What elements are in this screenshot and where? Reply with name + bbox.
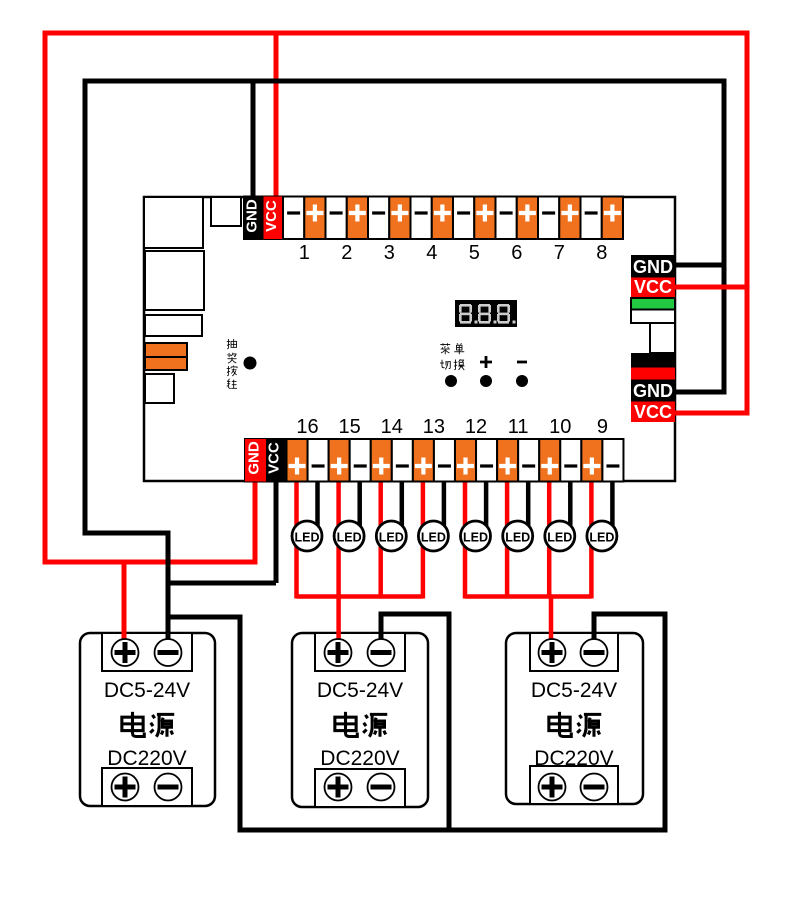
svg-text:16: 16	[296, 416, 318, 438]
svg-text:7: 7	[554, 242, 565, 264]
terminal 9- (bottom)	[602, 439, 623, 482]
label: PS3 电源 power	[549, 712, 601, 737]
svg-text:LED: LED	[463, 531, 488, 545]
terminal 10+ (bottom)	[539, 439, 560, 482]
svg-text:LED: LED	[547, 531, 572, 545]
svg-text:LED: LED	[505, 531, 530, 545]
terminal 6+ (top)	[517, 197, 538, 240]
svg-text:1: 1	[299, 242, 310, 264]
wire: red VCC loop right vertical	[745, 31, 750, 416]
svg-text:GND: GND	[633, 381, 673, 401]
component: green indicator block	[631, 298, 675, 310]
terminal: bottom VCC block (black)	[266, 439, 287, 482]
wire: black drop to PS2 minus screw	[379, 612, 384, 647]
connector: right GND block (top)	[631, 255, 675, 278]
connector: right black band (bottom group)	[631, 353, 675, 368]
screw terminal: PS2 DC5-24V minus	[368, 639, 395, 666]
terminal 7+ (top)	[559, 197, 580, 240]
button: minus SW4	[516, 375, 528, 387]
terminal 3+ (top)	[389, 197, 410, 240]
wire: LED6 black from terminal 11-	[526, 479, 531, 526]
wire: black GND loop right vertical	[722, 79, 727, 395]
label: PS2 电源 power	[335, 712, 387, 737]
wire: black horizontal bottom VCC to PS1 minus column	[168, 581, 276, 586]
svg-text:VCC: VCC	[634, 277, 672, 297]
svg-text:VCC: VCC	[634, 402, 672, 422]
connector: right VCC block (bottom)	[631, 402, 675, 423]
terminal 11- (bottom)	[518, 439, 539, 482]
terminal: top VCC block	[263, 197, 283, 240]
svg-text:5: 5	[469, 242, 480, 264]
svg-text:2: 2	[341, 242, 352, 264]
wire: black DC220V bus left vertical	[238, 615, 243, 833]
svg-text:DC5-24V: DC5-24V	[317, 679, 403, 702]
svg-text:6: 6	[511, 242, 522, 264]
wire: black horizontal to PS2 minus	[381, 612, 452, 617]
wire: black stub to top GND terminal	[251, 81, 256, 205]
display: 7-segment readout U1	[455, 300, 517, 327]
svg-text:DC5-24V: DC5-24V	[104, 679, 190, 702]
button: menu switch SW2	[445, 375, 457, 387]
wire: black horizontal from loop to PS1 minus column	[85, 531, 168, 536]
terminal 7- (top)	[538, 197, 559, 240]
wire: LED1 red from terminal 16+	[294, 479, 299, 599]
wire: LED2 black from terminal 15-	[357, 479, 362, 526]
wire: LED1 black from terminal 16-	[315, 479, 320, 526]
svg-text:13: 13	[423, 416, 445, 438]
svg-text:15: 15	[339, 416, 361, 438]
svg-text:LED: LED	[421, 531, 446, 545]
terminal 1- (top)	[283, 197, 304, 240]
terminal 16+ (bottom)	[287, 439, 308, 482]
terminal 16- (bottom)	[308, 439, 329, 482]
terminal 2+ (top)	[347, 197, 368, 240]
component: rect E left side	[145, 374, 174, 403]
wire: black GND loop left vertical	[83, 79, 88, 536]
wire: red from loop to bottom GND terminal, horizontal run	[45, 560, 255, 565]
screw terminal: PS1 DC5-24V minus	[155, 639, 182, 666]
svg-text:14: 14	[381, 416, 403, 438]
terminal strip J1 top (GND VCC and pairs 1-8)	[244, 197, 623, 240]
wire: black DC220V bus bottom horizontal	[238, 828, 668, 833]
wire: red drop to PS1 plus	[122, 562, 127, 646]
svg-text:10: 10	[549, 416, 571, 438]
wire: black drop to PS3 minus screw	[592, 612, 597, 647]
button: plus SW3	[480, 375, 492, 387]
terminal 1+ (top)	[304, 197, 325, 240]
LED D2	[334, 521, 364, 551]
svg-text:LED: LED	[589, 531, 614, 545]
wire: black branch to DC220V bus	[168, 615, 240, 620]
LED D4	[418, 521, 448, 551]
screw terminal: PS3 DC5-24V minus	[581, 639, 608, 666]
terminal 14+ (bottom)	[371, 439, 392, 482]
svg-text:LED: LED	[379, 531, 404, 545]
wire: LED8 black from terminal 9-	[610, 479, 615, 526]
label: plus button label	[480, 356, 492, 368]
svg-text:DC220V: DC220V	[320, 747, 399, 770]
component: small box right edge	[650, 323, 675, 353]
power supply PS1 (left) body	[80, 633, 215, 806]
screw terminal: PS1 DC220V minus	[155, 774, 182, 801]
terminal 13- (bottom)	[434, 439, 455, 482]
terminal 4+ (top)	[432, 197, 453, 240]
power supply PS2 (middle) body	[292, 633, 428, 807]
wire: LED4 black from terminal 13-	[442, 479, 447, 526]
label: minus button label	[517, 361, 527, 364]
screw terminal: PS1 DC5-24V plus	[112, 639, 139, 666]
svg-text:VCC: VCC	[263, 200, 280, 232]
terminal 2- (top)	[326, 197, 347, 240]
power supply PS3 (right) body	[506, 633, 643, 804]
terminal 5- (top)	[453, 197, 474, 240]
connector: right red band (bottom group)	[631, 368, 675, 380]
LED D3	[376, 521, 406, 551]
terminal 15- (bottom)	[350, 439, 371, 482]
wire: black bus riser mid (to PS2 minus)	[447, 614, 452, 830]
LED D7	[545, 521, 575, 551]
terminal 15+ (bottom)	[329, 439, 350, 482]
LED D1	[292, 521, 322, 551]
terminal 3- (top)	[368, 197, 389, 240]
wire: right side VCC top to red loop	[675, 285, 750, 290]
wire: LED2 red from terminal 15+ and drop to PS2 plus	[336, 479, 341, 646]
wire: LED8 red from terminal 9+	[589, 479, 594, 599]
svg-text:DC220V: DC220V	[534, 747, 613, 770]
svg-text:DC5-24V: DC5-24V	[531, 679, 617, 702]
wire: LED6 red from terminal 11+	[505, 479, 510, 599]
svg-text:LED: LED	[337, 531, 362, 545]
terminal 12+ (bottom)	[455, 439, 476, 482]
label: PS1 电源 power	[122, 712, 174, 737]
component: rect B top-left corner	[144, 197, 203, 248]
screw terminal: PS1 DC220V plus	[112, 774, 139, 801]
wire: red VCC loop top horizontal	[45, 31, 747, 36]
terminal: top GND block	[244, 197, 264, 240]
wire: LED3 black from terminal 14-	[400, 479, 405, 526]
screw terminal: PS2 DC5-24V plus	[325, 639, 352, 666]
svg-text:LED: LED	[295, 531, 320, 545]
wire: LED7 black from terminal 10-	[568, 479, 573, 526]
component: small box top-left of GND	[211, 197, 241, 226]
wire: red bus joining LED5-LED8 plus wires	[465, 594, 591, 599]
LED D5	[461, 521, 491, 551]
svg-text:GND: GND	[633, 257, 673, 277]
connector: right GND block (bottom)	[631, 380, 675, 402]
wire: red VCC loop left vertical	[43, 31, 48, 565]
component: rect C left side	[145, 251, 204, 310]
svg-text:8: 8	[596, 242, 607, 264]
wire: LED4 red from terminal 13+	[421, 479, 426, 599]
screw terminal: PS3 DC5-24V plus	[539, 639, 566, 666]
terminal 8+ (top)	[602, 197, 623, 240]
terminal 6- (top)	[496, 197, 517, 240]
svg-text:11: 11	[508, 416, 529, 438]
terminal 9+ (bottom)	[581, 439, 602, 482]
terminal 4- (top)	[411, 197, 432, 240]
terminal 11+ (bottom)	[497, 439, 518, 482]
svg-text:GND: GND	[244, 199, 261, 233]
terminal 12- (bottom)	[476, 439, 497, 482]
component: rect D left side	[145, 315, 202, 336]
terminal 10- (bottom)	[560, 439, 581, 482]
wire: black horizontal to PS3 minus	[594, 612, 668, 617]
wire: right side GND top to black loop	[675, 263, 727, 268]
wire: LED5 red from terminal 12+	[463, 479, 468, 599]
label: 抽奖按钮 lottery button label	[227, 339, 237, 388]
wire: black GND loop top horizontal	[85, 79, 724, 84]
svg-text:4: 4	[426, 242, 437, 264]
wire: black bus riser right (to PS3 minus)	[663, 614, 668, 833]
wire: LED7 red from terminal 10+ and drop to PS3 plus	[547, 479, 552, 599]
screw terminal: PS3 DC220V plus	[539, 774, 566, 801]
LED D8	[587, 521, 617, 551]
svg-text:12: 12	[465, 416, 487, 438]
svg-text:9: 9	[597, 416, 608, 438]
label: 菜单切换 menu switch label	[440, 343, 465, 370]
svg-text:DC220V: DC220V	[107, 747, 186, 770]
wire: red drop from bus to PS3 plus screw	[549, 597, 554, 647]
wire: black riser to bottom VCC block	[274, 479, 279, 583]
svg-text:GND: GND	[246, 441, 263, 475]
terminal 13+ (bottom)	[413, 439, 434, 482]
board PCB outline	[144, 197, 675, 481]
wire: right side GND bottom to black loop	[675, 390, 724, 395]
wire: red bus joining LED1-LED4 plus wires	[297, 594, 423, 599]
wire: red riser to bottom GND block	[253, 479, 258, 565]
component: white block below green	[631, 310, 675, 324]
terminal: bottom GND block (red)	[245, 439, 266, 482]
wire: red stub to top VCC terminal	[274, 33, 279, 205]
LED D6	[503, 521, 533, 551]
wire: black vertical to PS1 minus	[166, 531, 171, 647]
terminal 5+ (top)	[474, 197, 495, 240]
connector: right VCC block (top)	[631, 277, 675, 297]
terminal 14- (bottom)	[392, 439, 413, 482]
screw terminal: PS2 DC220V minus	[368, 774, 395, 801]
button: lottery push button SW1	[244, 357, 257, 370]
terminal strip J2 bottom (GND VCC and pairs 16-9)	[245, 439, 623, 482]
screw terminal: PS2 DC220V plus	[325, 774, 352, 801]
component: orange connector left side	[145, 343, 187, 370]
wire: LED3 red from terminal 14+	[378, 479, 383, 599]
wire: right side VCC bottom to red loop	[675, 411, 747, 416]
screw terminal: PS3 DC220V minus	[581, 774, 608, 801]
svg-text:3: 3	[384, 242, 395, 264]
wire: LED5 black from terminal 12-	[484, 479, 489, 526]
terminal 8- (top)	[581, 197, 602, 240]
svg-text:VCC: VCC	[266, 442, 283, 474]
